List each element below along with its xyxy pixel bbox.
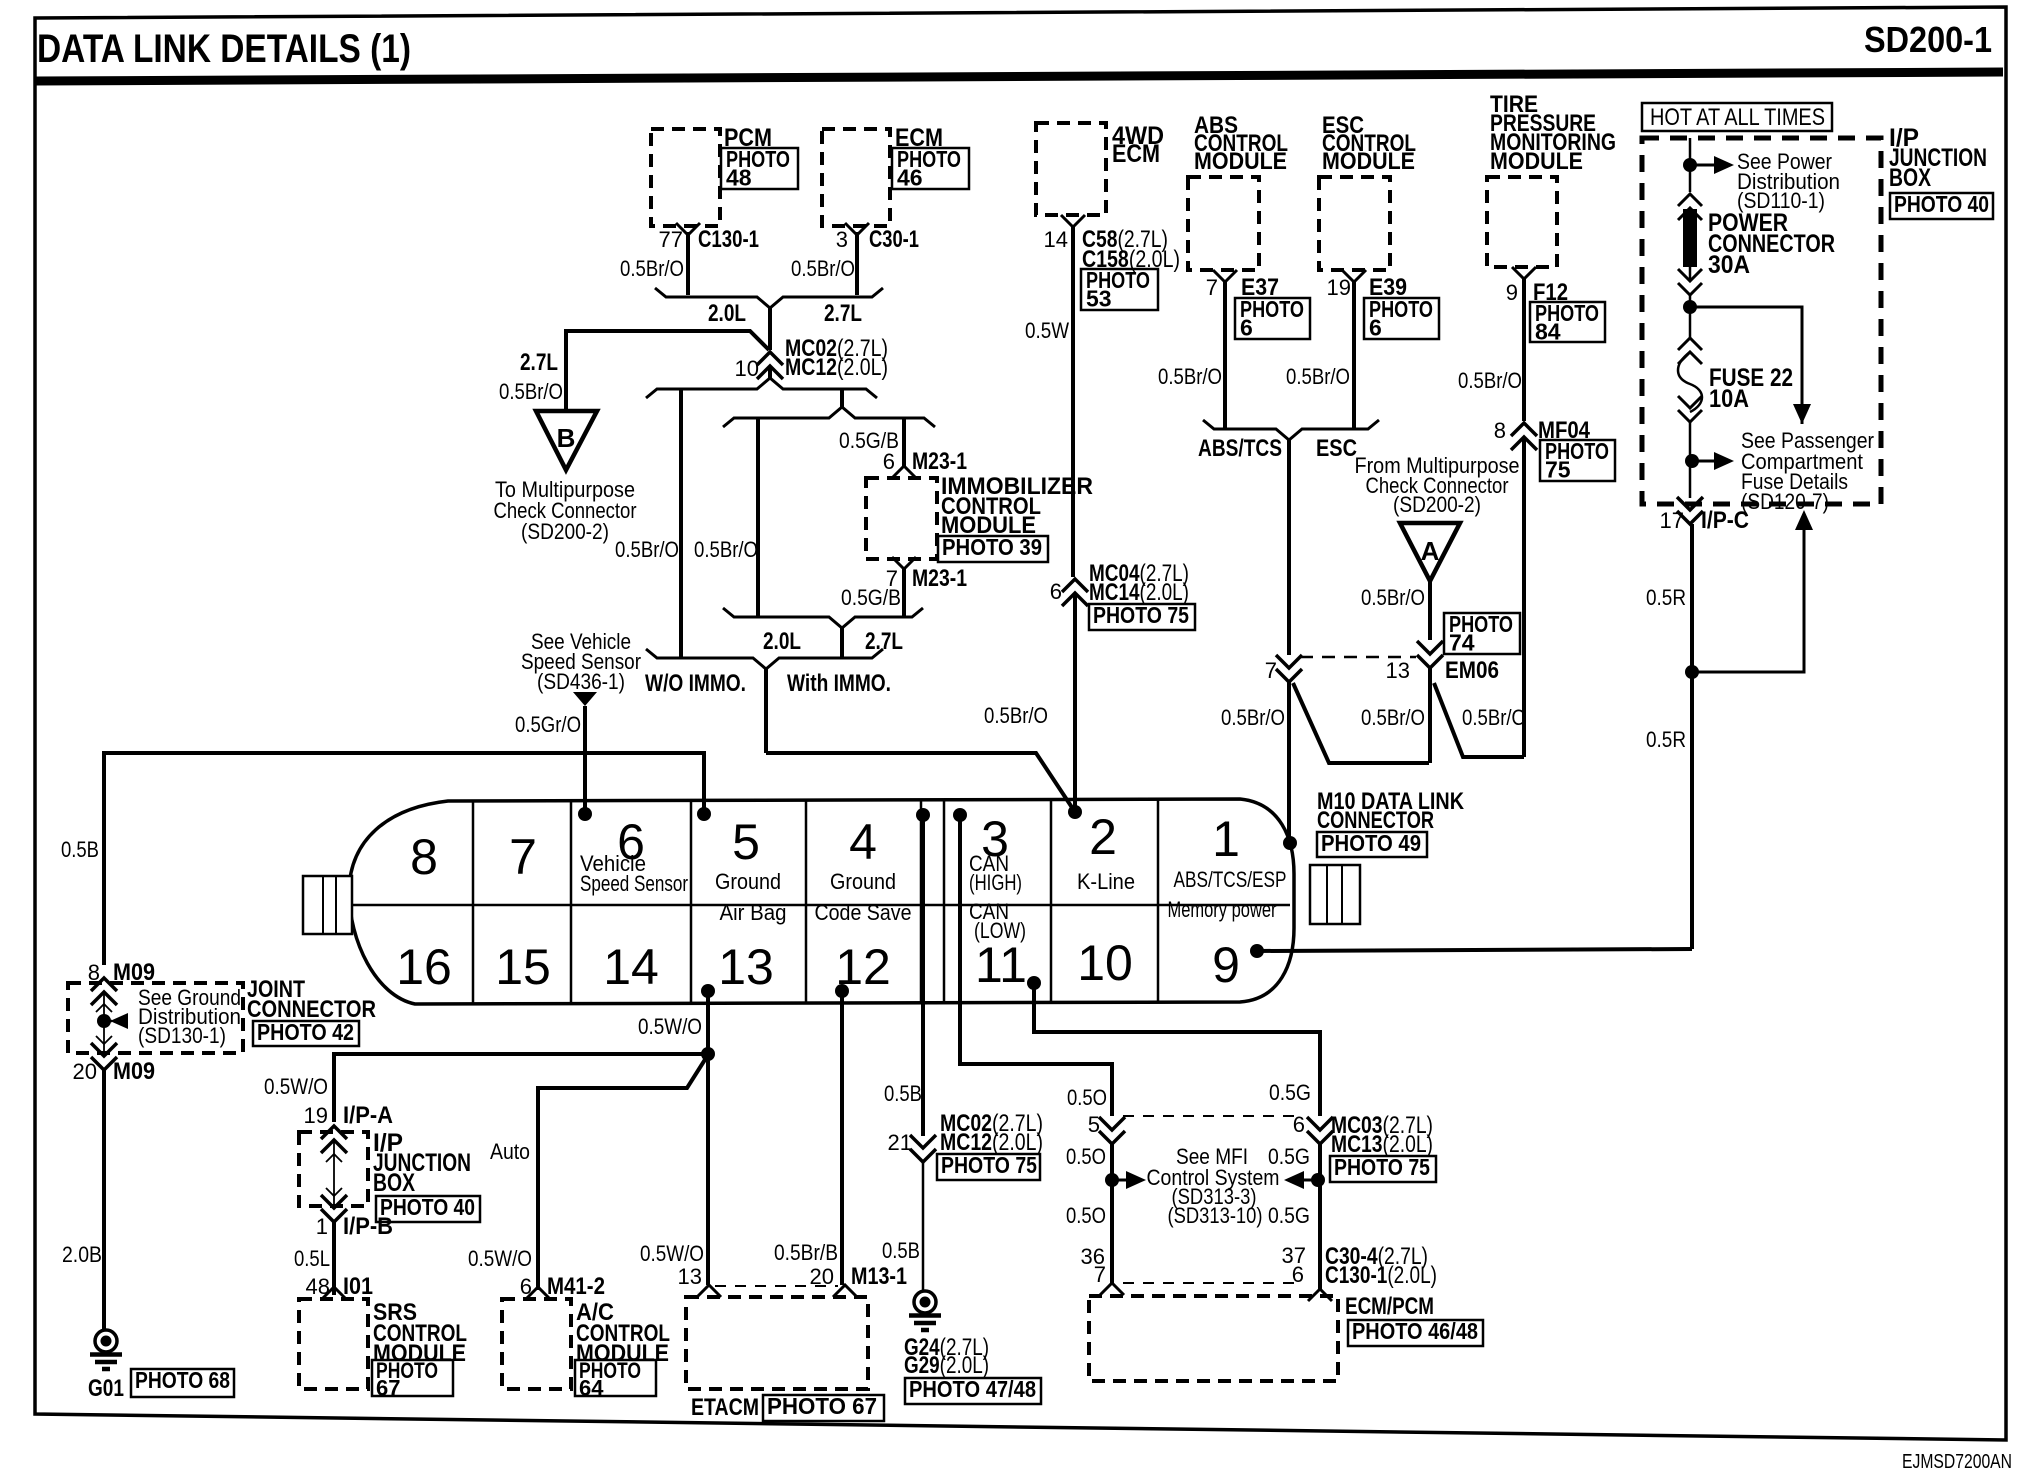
svg-text:20: 20 (810, 1264, 834, 1289)
svg-text:PHOTO 68: PHOTO 68 (135, 1367, 230, 1393)
svg-text:17: 17 (1660, 508, 1684, 533)
svg-text:A: A (1421, 536, 1440, 566)
svg-text:8: 8 (1494, 418, 1506, 443)
svg-text:7: 7 (509, 829, 537, 885)
svg-text:6: 6 (1293, 1112, 1305, 1137)
svg-text:PHOTO 75: PHOTO 75 (1093, 602, 1189, 628)
svg-text:I/P-C: I/P-C (1701, 507, 1749, 534)
svg-text:0.5W/O: 0.5W/O (638, 1014, 702, 1039)
svg-text:13: 13 (718, 939, 774, 995)
svg-text:0.5Br/O: 0.5Br/O (1221, 705, 1285, 730)
svg-text:PHOTO 42: PHOTO 42 (257, 1019, 354, 1045)
svg-text:67: 67 (376, 1376, 400, 1401)
svg-text:5: 5 (732, 814, 760, 870)
svg-text:0.5L: 0.5L (294, 1246, 330, 1271)
svg-text:Air Bag: Air Bag (720, 900, 787, 925)
svg-text:PHOTO 39: PHOTO 39 (942, 534, 1042, 560)
svg-text:0.5Gr/O: 0.5Gr/O (515, 712, 581, 737)
svg-text:ABS/TCS: ABS/TCS (1198, 435, 1282, 462)
svg-text:75: 75 (1545, 456, 1571, 482)
svg-text:0.5Br/O: 0.5Br/O (1361, 585, 1425, 610)
svg-text:Code Save: Code Save (815, 900, 912, 925)
svg-text:ECM: ECM (1112, 140, 1160, 168)
svg-text:ESC: ESC (1316, 435, 1357, 462)
svg-text:0.5O: 0.5O (1066, 1203, 1106, 1228)
svg-text:0.5O: 0.5O (1066, 1144, 1106, 1169)
svg-text:4: 4 (849, 814, 877, 870)
svg-text:M09: M09 (113, 1058, 155, 1085)
svg-text:2.7L: 2.7L (865, 628, 903, 655)
svg-text:M13-1: M13-1 (851, 1263, 907, 1290)
svg-text:0.5Br/O: 0.5Br/O (1458, 368, 1522, 393)
svg-text:0.5G/B: 0.5G/B (841, 585, 901, 610)
svg-text:K-Line: K-Line (1077, 869, 1135, 894)
svg-text:(SD200-2): (SD200-2) (521, 519, 609, 544)
svg-text:9: 9 (1506, 280, 1518, 305)
svg-text:(LOW): (LOW) (974, 918, 1026, 943)
svg-text:6: 6 (1050, 579, 1062, 604)
svg-text:2.0B: 2.0B (62, 1242, 102, 1267)
svg-text:0.5Br/O: 0.5Br/O (1462, 705, 1526, 730)
svg-text:PHOTO 75: PHOTO 75 (941, 1152, 1037, 1178)
svg-text:0.5B: 0.5B (884, 1081, 922, 1106)
svg-text:8: 8 (410, 829, 438, 885)
svg-text:M23-1: M23-1 (912, 565, 967, 592)
svg-text:I/P-B: I/P-B (343, 1213, 393, 1240)
svg-text:M23-1: M23-1 (912, 448, 967, 475)
svg-text:0.5Br/O: 0.5Br/O (1286, 364, 1350, 389)
svg-text:2.7L: 2.7L (520, 349, 558, 376)
svg-text:1: 1 (1212, 811, 1240, 867)
svg-text:13: 13 (678, 1264, 702, 1289)
svg-text:0.5Br/B: 0.5Br/B (774, 1240, 838, 1265)
svg-text:3: 3 (836, 227, 848, 252)
svg-text:BOX: BOX (1889, 164, 1931, 192)
svg-text:64: 64 (579, 1376, 604, 1401)
svg-text:0.5Br/O: 0.5Br/O (984, 703, 1048, 728)
svg-text:6: 6 (883, 449, 895, 474)
svg-text:2.0L: 2.0L (708, 300, 746, 327)
svg-text:21: 21 (888, 1130, 912, 1155)
svg-text:PHOTO 40: PHOTO 40 (380, 1194, 475, 1220)
svg-text:19: 19 (1327, 275, 1351, 300)
svg-text:0.5Br/O: 0.5Br/O (499, 379, 563, 404)
svg-text:PHOTO 75: PHOTO 75 (1334, 1154, 1430, 1180)
svg-text:0.5R: 0.5R (1646, 727, 1686, 752)
svg-text:13: 13 (1386, 658, 1410, 683)
svg-text:0.5B: 0.5B (882, 1238, 920, 1263)
svg-text:14: 14 (1044, 227, 1068, 252)
svg-text:0.5O: 0.5O (1067, 1085, 1107, 1110)
svg-text:I/P-A: I/P-A (343, 1102, 393, 1129)
svg-text:0.5Br/O: 0.5Br/O (620, 256, 684, 281)
svg-text:5: 5 (1088, 1112, 1100, 1137)
svg-text:PHOTO 67: PHOTO 67 (767, 1393, 877, 1419)
svg-text:B: B (557, 423, 576, 453)
svg-text:W/O IMMO.: W/O IMMO. (645, 670, 746, 697)
svg-text:(HIGH): (HIGH) (969, 870, 1022, 895)
svg-text:14: 14 (603, 939, 659, 995)
svg-text:I01: I01 (343, 1273, 373, 1300)
svg-text:11: 11 (975, 937, 1027, 993)
svg-text:0.5Br/O: 0.5Br/O (791, 256, 855, 281)
svg-text:ETACM: ETACM (691, 1394, 759, 1421)
svg-text:2: 2 (1089, 809, 1117, 865)
svg-text:0.5Br/O: 0.5Br/O (1361, 705, 1425, 730)
svg-text:0.5Br/O: 0.5Br/O (615, 537, 679, 562)
svg-text:10: 10 (735, 356, 759, 381)
svg-text:BOX: BOX (373, 1169, 415, 1197)
svg-text:20: 20 (73, 1059, 97, 1084)
svg-text:ECM/PCM: ECM/PCM (1345, 1293, 1434, 1320)
svg-text:0.5Br/O: 0.5Br/O (694, 537, 758, 562)
svg-text:C30-1: C30-1 (869, 226, 919, 253)
svg-text:M41-2: M41-2 (547, 1273, 605, 1300)
svg-text:1: 1 (316, 1214, 328, 1239)
svg-text:C130-1(2.0L): C130-1(2.0L) (1325, 1262, 1437, 1289)
svg-text:9: 9 (1212, 937, 1240, 993)
svg-text:With IMMO.: With IMMO. (787, 670, 891, 697)
svg-text:0.5W/O: 0.5W/O (264, 1074, 328, 1099)
svg-text:PHOTO 47/48: PHOTO 47/48 (909, 1376, 1036, 1402)
svg-text:MODULE: MODULE (1194, 148, 1287, 175)
svg-text:MC12(2.0L): MC12(2.0L) (785, 354, 888, 381)
svg-text:Ground: Ground (830, 869, 896, 894)
svg-text:16: 16 (396, 939, 452, 995)
svg-text:53: 53 (1086, 285, 1112, 311)
svg-text:(SD120-7): (SD120-7) (1741, 489, 1829, 514)
svg-text:G01: G01 (88, 1375, 124, 1402)
svg-text:ABS/TCS/ESP: ABS/TCS/ESP (1174, 867, 1287, 892)
svg-text:DATA LINK DETAILS (1): DATA LINK DETAILS (1) (37, 27, 411, 71)
svg-text:PHOTO 40: PHOTO 40 (1894, 191, 1989, 217)
svg-text:48: 48 (726, 164, 752, 190)
svg-text:(SD200-2): (SD200-2) (1393, 492, 1481, 517)
svg-text:EJMSD7200AN: EJMSD7200AN (1902, 1451, 2012, 1472)
svg-text:Memory power: Memory power (1168, 897, 1277, 922)
svg-text:7: 7 (1265, 658, 1277, 683)
svg-text:Ground: Ground (715, 869, 781, 894)
svg-text:30A: 30A (1708, 251, 1750, 279)
svg-text:Auto: Auto (490, 1139, 530, 1164)
svg-text:7: 7 (1094, 1262, 1106, 1287)
svg-text:PHOTO 46/48: PHOTO 46/48 (1352, 1318, 1478, 1344)
svg-text:10A: 10A (1709, 385, 1749, 413)
svg-text:Speed Sensor: Speed Sensor (580, 871, 688, 896)
svg-text:0.5B: 0.5B (61, 837, 99, 862)
svg-text:(SD436-1): (SD436-1) (537, 669, 625, 694)
svg-text:SD200-1: SD200-1 (1864, 19, 1992, 60)
svg-text:(SD130-1): (SD130-1) (138, 1023, 226, 1048)
svg-text:2.7L: 2.7L (824, 300, 862, 327)
svg-text:6: 6 (1240, 314, 1253, 340)
svg-text:84: 84 (1535, 318, 1561, 344)
svg-text:10: 10 (1077, 935, 1133, 991)
svg-text:0.5W/O: 0.5W/O (468, 1246, 532, 1271)
svg-text:(SD313-10): (SD313-10) (1168, 1203, 1263, 1228)
svg-text:2.0L: 2.0L (763, 628, 801, 655)
svg-text:0.5W/O: 0.5W/O (640, 1241, 704, 1266)
svg-text:0.5G: 0.5G (1268, 1203, 1310, 1228)
svg-text:HOT AT ALL TIMES: HOT AT ALL TIMES (1650, 104, 1825, 131)
svg-text:74: 74 (1449, 629, 1475, 655)
svg-text:0.5R: 0.5R (1646, 585, 1686, 610)
svg-text:77: 77 (659, 227, 683, 252)
svg-text:7: 7 (1206, 275, 1218, 300)
svg-text:6: 6 (1369, 314, 1382, 340)
svg-text:MODULE: MODULE (1322, 148, 1415, 175)
svg-text:15: 15 (495, 939, 551, 995)
svg-text:46: 46 (897, 164, 923, 190)
svg-text:MODULE: MODULE (1490, 148, 1583, 175)
svg-text:0.5G: 0.5G (1269, 1080, 1311, 1105)
svg-text:EM06: EM06 (1445, 657, 1499, 684)
svg-text:0.5Br/O: 0.5Br/O (1158, 364, 1222, 389)
svg-text:0.5W: 0.5W (1025, 318, 1069, 343)
svg-text:PHOTO 49: PHOTO 49 (1321, 830, 1421, 856)
svg-text:C130-1: C130-1 (698, 226, 759, 253)
svg-text:19: 19 (304, 1103, 328, 1128)
